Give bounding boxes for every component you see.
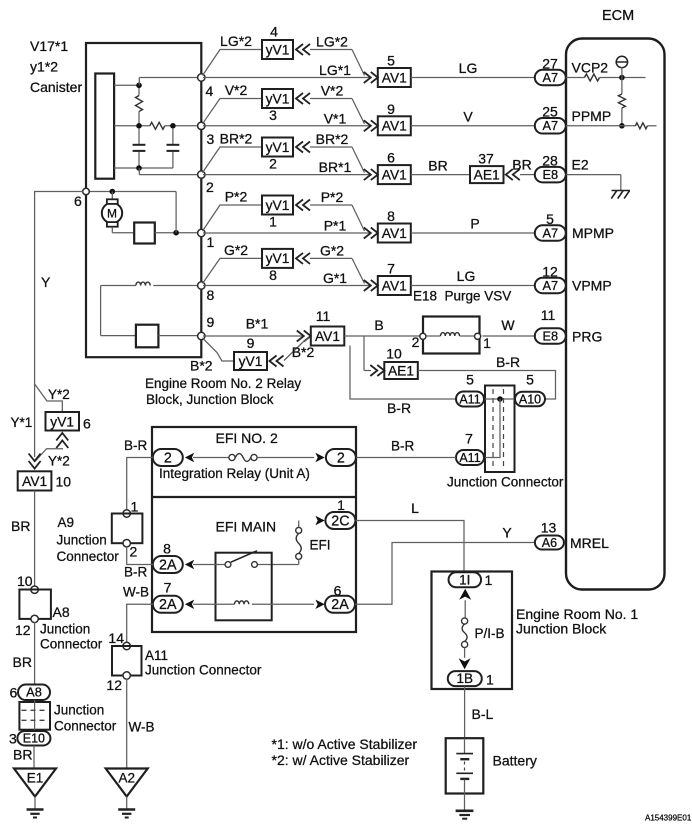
svg-text:5: 5: [466, 372, 474, 388]
svg-text:BR: BR: [13, 747, 32, 763]
svg-text:2: 2: [337, 450, 345, 466]
svg-text:yV1: yV1: [266, 251, 290, 266]
svg-text:G*1: G*1: [323, 270, 347, 286]
svg-text:25: 25: [542, 104, 558, 120]
svg-text:8: 8: [269, 267, 277, 283]
svg-text:A7: A7: [542, 118, 558, 133]
svg-text:9: 9: [247, 335, 255, 351]
svg-text:B: B: [374, 317, 383, 333]
svg-text:1: 1: [486, 672, 494, 688]
svg-text:28: 28: [542, 152, 558, 168]
svg-text:10: 10: [17, 573, 33, 589]
svg-text:*1: w/o Active Stabilizer: *1: w/o Active Stabilizer: [272, 736, 418, 752]
svg-text:LG: LG: [459, 60, 478, 76]
svg-text:BR: BR: [512, 157, 531, 173]
svg-text:LG*1: LG*1: [319, 62, 351, 78]
svg-text:A7: A7: [542, 225, 558, 240]
svg-text:7: 7: [465, 431, 473, 447]
svg-text:Integration Relay (Unit A): Integration Relay (Unit A): [159, 466, 310, 481]
svg-text:5: 5: [387, 53, 395, 69]
svg-text:6: 6: [334, 583, 342, 599]
svg-text:A8: A8: [53, 604, 70, 620]
svg-text:Connector: Connector: [40, 637, 103, 652]
svg-text:Junction Connector: Junction Connector: [145, 663, 262, 678]
svg-text:11: 11: [316, 308, 331, 324]
svg-text:G*2: G*2: [224, 242, 248, 258]
svg-text:MPMP: MPMP: [572, 225, 614, 241]
svg-text:P*2: P*2: [225, 189, 248, 205]
svg-text:V: V: [463, 108, 473, 124]
svg-text:AV1: AV1: [382, 119, 407, 134]
svg-text:8: 8: [207, 287, 215, 303]
svg-text:Connector: Connector: [54, 719, 117, 734]
svg-text:y1*2: y1*2: [30, 59, 58, 75]
svg-text:AV1: AV1: [382, 226, 407, 241]
svg-text:9: 9: [387, 101, 395, 117]
svg-text:A11: A11: [145, 648, 168, 663]
svg-text:yV1: yV1: [266, 91, 290, 106]
svg-text:BR: BR: [13, 654, 32, 670]
svg-text:Junction Block: Junction Block: [516, 621, 607, 637]
svg-text:P/I-B: P/I-B: [475, 626, 505, 641]
svg-text:2A: 2A: [159, 597, 177, 613]
svg-text:12: 12: [542, 263, 558, 279]
svg-text:W: W: [501, 317, 515, 333]
svg-text:yV1: yV1: [266, 198, 290, 213]
svg-text:A8: A8: [26, 685, 42, 700]
svg-text:VCP2: VCP2: [572, 60, 609, 76]
svg-text:7: 7: [387, 261, 395, 277]
svg-text:B-L: B-L: [472, 706, 494, 722]
svg-text:2: 2: [206, 179, 214, 195]
svg-text:A11: A11: [459, 392, 480, 406]
svg-text:4: 4: [206, 83, 214, 99]
svg-text:Junction: Junction: [57, 533, 107, 548]
svg-text:A154399E01: A154399E01: [645, 814, 692, 823]
svg-text:V*2: V*2: [225, 82, 248, 98]
svg-text:Junction Connector: Junction Connector: [447, 475, 564, 490]
svg-text:2A: 2A: [159, 557, 177, 573]
svg-text:11: 11: [541, 307, 556, 323]
svg-text:PRG: PRG: [572, 329, 602, 345]
svg-text:B-R: B-R: [496, 354, 520, 370]
svg-text:Y: Y: [41, 274, 51, 290]
svg-text:1B: 1B: [457, 671, 474, 686]
svg-text:yV1: yV1: [50, 415, 74, 430]
svg-text:Connector: Connector: [57, 549, 120, 564]
svg-text:LG*2: LG*2: [220, 33, 252, 49]
svg-text:P: P: [470, 216, 479, 232]
svg-text:1: 1: [207, 234, 215, 250]
svg-text:Engine Room No. 2 Relay: Engine Room No. 2 Relay: [145, 376, 301, 391]
svg-text:BR*2: BR*2: [316, 131, 349, 147]
svg-text:2: 2: [164, 450, 172, 466]
svg-text:P*1: P*1: [324, 218, 347, 234]
svg-text:27: 27: [542, 55, 558, 71]
svg-text:yV1: yV1: [239, 354, 263, 369]
svg-text:B*1: B*1: [246, 316, 269, 332]
svg-text:A7: A7: [542, 278, 558, 293]
svg-text:10: 10: [56, 474, 72, 490]
svg-text:W-B: W-B: [129, 720, 155, 735]
svg-text:12: 12: [106, 677, 122, 693]
svg-text:E10: E10: [23, 731, 45, 745]
svg-text:8: 8: [387, 208, 395, 224]
svg-text:E8: E8: [542, 167, 558, 182]
svg-text:AV1: AV1: [315, 329, 340, 344]
svg-text:Y: Y: [502, 525, 512, 541]
svg-text:A9: A9: [58, 515, 75, 530]
svg-text:LG*2: LG*2: [316, 34, 348, 50]
svg-text:Y*2: Y*2: [48, 454, 70, 469]
svg-text:V17*1: V17*1: [30, 38, 68, 54]
svg-text:2C: 2C: [331, 513, 349, 529]
svg-text:8: 8: [163, 540, 171, 556]
svg-text:V*1: V*1: [324, 110, 347, 126]
svg-text:Junction: Junction: [54, 703, 104, 718]
svg-text:9: 9: [207, 314, 215, 330]
svg-text:BR: BR: [11, 518, 30, 534]
svg-text:E18 Purge VSV: E18 Purge VSV: [413, 289, 511, 304]
svg-text:EFI: EFI: [310, 538, 331, 553]
svg-text:E8: E8: [542, 328, 558, 343]
svg-text:ECM: ECM: [602, 8, 634, 24]
svg-text:5: 5: [546, 211, 554, 227]
svg-text:BR*2: BR*2: [220, 131, 253, 147]
svg-text:L: L: [411, 500, 419, 516]
svg-text:LG: LG: [457, 268, 476, 284]
svg-text:2: 2: [412, 334, 420, 350]
svg-text:PPMP: PPMP: [572, 108, 612, 124]
svg-text:2: 2: [130, 544, 138, 560]
svg-text:1: 1: [483, 335, 491, 351]
svg-text:3: 3: [9, 731, 17, 747]
svg-text:1: 1: [269, 214, 277, 230]
svg-text:E1: E1: [27, 771, 44, 786]
svg-text:B*2: B*2: [292, 344, 315, 360]
svg-text:B-R: B-R: [387, 400, 411, 416]
svg-text:10: 10: [386, 346, 402, 362]
svg-text:A7: A7: [542, 70, 558, 85]
svg-text:7: 7: [164, 579, 172, 595]
svg-text:B-R: B-R: [391, 439, 415, 454]
svg-text:AE1: AE1: [388, 363, 414, 378]
svg-text:6: 6: [10, 685, 18, 701]
svg-text:G*2: G*2: [320, 242, 344, 258]
svg-text:6: 6: [83, 416, 91, 432]
svg-text:B-R: B-R: [124, 438, 148, 453]
svg-text:Y*1: Y*1: [11, 415, 33, 430]
svg-text:VPMP: VPMP: [572, 278, 612, 294]
svg-text:M: M: [107, 207, 117, 221]
svg-text:Canister: Canister: [30, 79, 82, 95]
svg-text:B*2: B*2: [190, 358, 213, 374]
svg-text:2: 2: [269, 156, 277, 172]
svg-text:EFI NO. 2: EFI NO. 2: [216, 430, 278, 446]
svg-text:E2: E2: [572, 157, 589, 173]
svg-text:Y*2: Y*2: [48, 387, 70, 402]
svg-text:12: 12: [15, 622, 31, 638]
svg-text:BR: BR: [428, 158, 447, 174]
svg-text:13: 13: [541, 520, 557, 536]
svg-text:MREL: MREL: [570, 535, 609, 551]
svg-text:AV1: AV1: [382, 70, 407, 85]
svg-text:1: 1: [485, 572, 493, 588]
svg-text:1: 1: [131, 499, 139, 515]
svg-text:A2: A2: [118, 771, 135, 786]
svg-text:A6: A6: [542, 536, 557, 550]
svg-text:W-B: W-B: [123, 585, 149, 600]
svg-text:1I: 1I: [459, 572, 470, 587]
svg-text:AE1: AE1: [474, 167, 500, 182]
svg-text:A11: A11: [459, 451, 480, 465]
svg-text:P*2: P*2: [321, 189, 344, 205]
svg-text:Block, Junction Block: Block, Junction Block: [146, 392, 274, 407]
svg-text:*2: w/ Active Stabilizer: *2: w/ Active Stabilizer: [272, 752, 410, 768]
svg-text:yV1: yV1: [266, 140, 290, 155]
svg-text:14: 14: [108, 630, 124, 646]
svg-text:Junction: Junction: [40, 622, 90, 637]
svg-text:2A: 2A: [331, 597, 349, 613]
svg-text:V*2: V*2: [321, 83, 344, 99]
svg-text:BR*1: BR*1: [319, 159, 352, 175]
svg-text:AV1: AV1: [22, 474, 47, 489]
svg-text:1: 1: [337, 497, 345, 513]
svg-text:3: 3: [269, 107, 277, 123]
svg-text:37: 37: [478, 151, 494, 167]
svg-text:AV1: AV1: [382, 167, 407, 182]
svg-text:yV1: yV1: [266, 42, 290, 57]
svg-text:5: 5: [526, 372, 534, 388]
svg-text:6: 6: [387, 150, 395, 166]
svg-text:AV1: AV1: [382, 278, 407, 293]
svg-text:Battery: Battery: [493, 753, 537, 769]
svg-text:EFI MAIN: EFI MAIN: [216, 519, 277, 535]
svg-text:B-R: B-R: [124, 565, 148, 580]
svg-text:3: 3: [207, 131, 215, 147]
svg-text:4: 4: [270, 24, 278, 40]
svg-text:A10: A10: [519, 392, 541, 406]
svg-text:6: 6: [74, 193, 82, 209]
